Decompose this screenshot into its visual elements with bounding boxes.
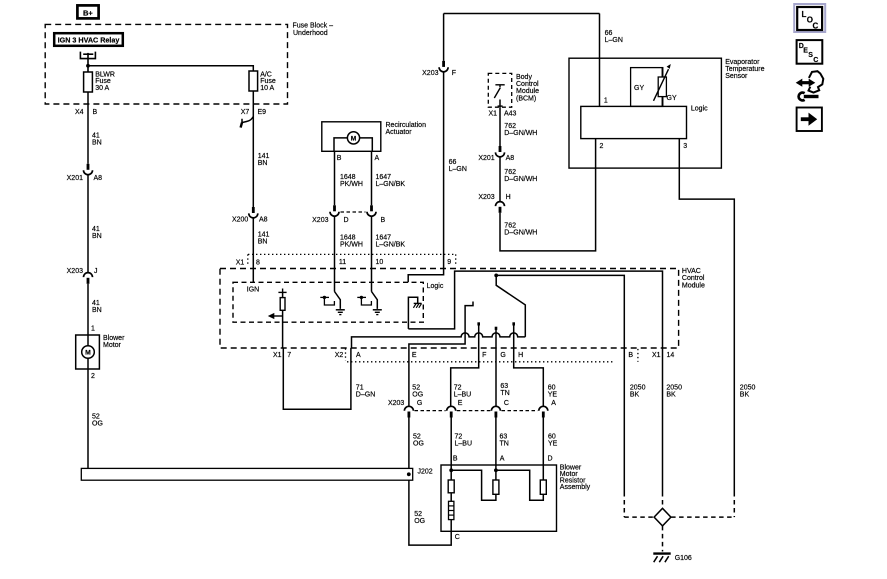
connector X203 pin E (row) xyxy=(447,406,456,411)
wire X200 to HVAC X1-8 (141 BN) xyxy=(252,218,254,282)
battery feed B+ symbol xyxy=(77,5,98,18)
svg-text:Module: Module xyxy=(516,88,539,95)
svg-text:Logic: Logic xyxy=(427,283,444,290)
wire pin E to X203-G (52 OG) xyxy=(408,348,410,406)
wire X201 to X203 (41 BN) xyxy=(87,175,89,273)
svg-text:52: 52 xyxy=(414,511,422,518)
splice J202 xyxy=(81,468,412,480)
wire ground net to X1-14 xyxy=(408,271,662,492)
wire X203-C to resistor A (63 TN) xyxy=(495,418,497,466)
connector X1 bracket right xyxy=(455,254,457,265)
svg-text:1648: 1648 xyxy=(340,235,356,242)
module evaporator temperature sensor box xyxy=(569,58,721,168)
relay contact symbol xyxy=(80,52,95,59)
svg-text:14: 14 xyxy=(667,352,675,359)
HVAC driver arrow xyxy=(273,315,283,317)
svg-text:X200: X200 xyxy=(232,217,248,224)
wire X203-A to resistor D (60 YE) xyxy=(542,418,544,466)
wire top horizontal 66 L-GN xyxy=(444,13,600,15)
svg-text:L: L xyxy=(802,10,807,19)
HVAC driver resistor xyxy=(282,289,284,293)
svg-text:B+: B+ xyxy=(83,8,93,17)
svg-text:1647: 1647 xyxy=(376,174,392,181)
wire X203 D to HVAC pin 11 xyxy=(334,216,336,291)
wire recirc A to X203 (1647 L-GN/BK) xyxy=(371,151,373,205)
svg-text:141: 141 xyxy=(258,232,270,239)
HVAC driver Q2 control hook xyxy=(357,296,366,298)
switch contact E stub xyxy=(409,302,473,349)
connector X1 bracket left xyxy=(247,254,249,265)
connector row X2 dotted line xyxy=(347,361,614,363)
svg-text:IGN: IGN xyxy=(247,287,259,294)
svg-text:52: 52 xyxy=(412,384,420,391)
svg-text:D–GN/WH: D–GN/WH xyxy=(504,176,537,183)
svg-text:9: 9 xyxy=(447,259,451,266)
wire J202 to resistor C (52 OG) xyxy=(409,480,451,545)
junction dot J202 xyxy=(407,472,411,476)
svg-text:2050: 2050 xyxy=(666,384,682,391)
svg-text:L–GN/BK: L–GN/BK xyxy=(376,181,406,188)
svg-text:G: G xyxy=(500,352,505,359)
relay K: IGN 3 HVAC Relay box xyxy=(54,33,123,46)
junction dot relay output xyxy=(86,64,90,68)
svg-text:A: A xyxy=(356,352,361,359)
svg-text:X7: X7 xyxy=(241,109,250,116)
connector X201 pin A8 (BCM) xyxy=(499,146,502,152)
svg-text:D–GN/WH: D–GN/WH xyxy=(504,230,537,237)
svg-text:L–BU: L–BU xyxy=(455,441,473,448)
connector X203 D-B dashed link xyxy=(341,211,366,213)
svg-text:52: 52 xyxy=(92,413,100,420)
junction dot switch feed xyxy=(494,274,498,278)
junction dot resistor B xyxy=(449,468,453,472)
module BCM dashed box xyxy=(488,73,511,107)
recirculation actuator M2 box xyxy=(322,122,381,152)
wire pin B dashed to splice xyxy=(623,492,625,517)
svg-text:2050: 2050 xyxy=(630,384,646,391)
svg-text:BN: BN xyxy=(258,160,268,167)
svg-text:YE: YE xyxy=(548,391,558,398)
dashed ground bus left xyxy=(624,516,654,518)
blower switch hop wire from X2-A xyxy=(352,333,526,348)
inline clip symbol on 141 BN wire xyxy=(242,117,253,123)
connector B bracket xyxy=(637,349,639,362)
svg-text:(BCM): (BCM) xyxy=(516,95,536,102)
svg-text:63: 63 xyxy=(500,383,508,390)
svg-text:E: E xyxy=(458,400,463,407)
svg-text:A8: A8 xyxy=(259,217,268,224)
svg-text:H: H xyxy=(506,194,511,201)
svg-text:7: 7 xyxy=(287,352,291,359)
svg-text:X201: X201 xyxy=(67,175,83,182)
svg-text:L–GN: L–GN xyxy=(605,37,623,44)
svg-text:3: 3 xyxy=(683,143,687,150)
svg-text:52: 52 xyxy=(413,434,421,441)
wire X203 B to HVAC pin 10 xyxy=(371,216,373,291)
wire BCM to X201 (762 D-GN/WH) xyxy=(499,107,501,146)
wire evap-3 dashed to splice xyxy=(733,492,735,517)
svg-text:E: E xyxy=(412,352,417,359)
svg-text:OG: OG xyxy=(412,391,423,398)
svg-text:10: 10 xyxy=(376,259,384,266)
sensor element GY box xyxy=(631,68,663,107)
svg-text:2050: 2050 xyxy=(740,384,756,391)
wire diamond to G106 xyxy=(662,526,664,552)
svg-text:Blower: Blower xyxy=(103,335,125,342)
connector X203 pin B (recirc) xyxy=(370,205,373,211)
HVAC driver Q2 to ground xyxy=(372,292,378,309)
icon schematic navigation (arrows and wrench) xyxy=(796,79,803,87)
svg-text:Control: Control xyxy=(682,275,705,282)
fuse block - underhood box xyxy=(45,24,287,104)
connector X203 pin J xyxy=(84,273,93,278)
svg-text:IGN 3 HVAC Relay: IGN 3 HVAC Relay xyxy=(58,36,120,45)
svg-text:Fuse Block –: Fuse Block – xyxy=(293,23,334,30)
svg-text:11: 11 xyxy=(339,259,346,266)
wire switch feed to pin B xyxy=(496,275,624,492)
svg-text:BN: BN xyxy=(92,139,102,146)
svg-text:L–GN/BK: L–GN/BK xyxy=(376,242,406,249)
junction dot resistor A xyxy=(494,468,498,472)
connector X203 pin D xyxy=(333,205,336,211)
svg-text:A: A xyxy=(500,455,505,462)
svg-text:YE: YE xyxy=(548,441,558,448)
svg-text:BK: BK xyxy=(666,391,676,398)
svg-text:M: M xyxy=(85,350,91,357)
thermistor RT1 xyxy=(658,77,666,97)
wire BLWR fuse to X201 xyxy=(87,92,89,164)
blower switch wiper arm xyxy=(496,275,525,337)
svg-text:762: 762 xyxy=(504,223,516,230)
svg-text:HVAC: HVAC xyxy=(682,268,701,275)
svg-text:X201: X201 xyxy=(478,155,494,162)
switch contact G xyxy=(495,327,498,330)
svg-text:X203: X203 xyxy=(67,268,83,275)
wire top right vertical to evaporator pin 1 xyxy=(599,14,601,107)
connector X203 pin C xyxy=(491,406,500,411)
resistor R3 xyxy=(542,465,544,480)
icon LOC button xyxy=(794,4,825,32)
svg-text:X203: X203 xyxy=(478,194,494,201)
svg-text:G: G xyxy=(417,400,422,407)
svg-text:B: B xyxy=(337,155,342,162)
svg-text:10 A: 10 A xyxy=(260,85,274,92)
svg-text:BN: BN xyxy=(92,307,102,314)
svg-text:Control: Control xyxy=(516,81,539,88)
resistor R2 xyxy=(495,465,497,480)
svg-text:X1: X1 xyxy=(236,260,245,267)
svg-text:A: A xyxy=(551,400,556,407)
svg-text:J202: J202 xyxy=(418,469,433,476)
svg-text:E9: E9 xyxy=(258,109,267,116)
jumper B to R2 bottom xyxy=(451,470,496,500)
HVAC driver Q1 to ground xyxy=(335,292,341,309)
connector X203 pin G xyxy=(404,406,413,411)
svg-text:D: D xyxy=(344,217,349,224)
switch contact F xyxy=(477,322,480,325)
svg-text:GY: GY xyxy=(634,85,644,92)
svg-text:X4: X4 xyxy=(75,109,84,116)
ground G106 symbol xyxy=(653,552,670,554)
svg-text:X203: X203 xyxy=(422,70,438,77)
svg-text:63: 63 xyxy=(500,434,508,441)
svg-text:J: J xyxy=(94,268,98,275)
connector X2 bracket xyxy=(345,348,347,360)
svg-text:A: A xyxy=(375,155,380,162)
svg-text:72: 72 xyxy=(455,434,463,441)
svg-text:A8: A8 xyxy=(506,155,515,162)
wire A/C fuse to X200 (141 BN) xyxy=(252,91,254,207)
svg-text:X203: X203 xyxy=(388,400,404,407)
svg-text:F: F xyxy=(482,352,486,359)
svg-text:2: 2 xyxy=(600,143,604,150)
svg-text:Evaporator: Evaporator xyxy=(725,59,760,66)
svg-text:PK/WH: PK/WH xyxy=(340,242,363,249)
svg-text:Body: Body xyxy=(516,74,532,81)
svg-text:30 A: 30 A xyxy=(95,85,109,92)
BCM internal switch xyxy=(495,84,504,86)
svg-text:OG: OG xyxy=(92,420,103,427)
HVAC logic chassis ground xyxy=(408,297,417,329)
svg-text:X1: X1 xyxy=(488,111,497,118)
thermal limiter ladder xyxy=(450,493,452,502)
svg-text:B: B xyxy=(381,217,386,224)
connector X201 pin A8 xyxy=(87,164,90,170)
svg-text:141: 141 xyxy=(258,153,270,160)
svg-text:Actuator: Actuator xyxy=(386,129,413,136)
svg-text:72: 72 xyxy=(454,384,462,391)
evaporator logic box xyxy=(581,106,687,138)
svg-text:L–GN: L–GN xyxy=(449,166,467,173)
wire X1-7 to X2-A (71 D-GN) xyxy=(283,348,351,409)
connector row X1 dotted line xyxy=(248,253,456,255)
svg-text:BN: BN xyxy=(92,233,102,240)
svg-text:A8: A8 xyxy=(94,175,103,182)
svg-text:TN: TN xyxy=(500,390,509,397)
module HVAC control module dashed box xyxy=(220,269,679,349)
svg-text:X203: X203 xyxy=(312,217,328,224)
svg-text:2: 2 xyxy=(91,373,95,380)
icon DESC button xyxy=(797,40,823,64)
switch contact H xyxy=(512,322,515,325)
svg-text:Assembly: Assembly xyxy=(560,484,591,491)
svg-text:60: 60 xyxy=(548,384,556,391)
jumper A to R3 bottom xyxy=(496,470,543,500)
resistor R1 xyxy=(450,465,452,480)
splice diamond xyxy=(654,508,671,526)
HVAC logic dashed box xyxy=(233,282,423,322)
wire recirc B to X203 (1648 PK/WH) xyxy=(334,151,336,205)
svg-text:C: C xyxy=(455,534,460,541)
svg-text:1647: 1647 xyxy=(376,235,392,242)
svg-text:762: 762 xyxy=(504,169,516,176)
connector X203 pin F xyxy=(442,61,445,67)
wire blower motor to J202 (52 OG) xyxy=(87,369,89,468)
svg-text:OG: OG xyxy=(413,441,424,448)
svg-text:1: 1 xyxy=(91,325,95,332)
svg-text:BK: BK xyxy=(740,391,750,398)
svg-text:X2: X2 xyxy=(335,352,344,359)
wire X203-E to resistor B (72 L-BU) xyxy=(450,418,452,466)
svg-text:66: 66 xyxy=(605,30,613,37)
svg-text:66: 66 xyxy=(449,159,457,166)
svg-text:L–BU: L–BU xyxy=(454,391,472,398)
svg-text:TN: TN xyxy=(500,441,509,448)
svg-text:Module: Module xyxy=(682,282,705,289)
wire X203 H to evaporator pin 2 (762) xyxy=(500,139,596,251)
wire X203 F to HVAC pin 9 (66 L-GN) xyxy=(408,72,443,282)
svg-text:Motor: Motor xyxy=(103,342,122,349)
svg-text:Logic: Logic xyxy=(691,106,708,113)
icon next arrow button xyxy=(797,108,822,132)
svg-text:C: C xyxy=(813,57,818,64)
connector X200 pin A8 xyxy=(252,207,255,213)
wire X203-G to J202 (52 OG) xyxy=(408,418,410,469)
fuse F1 BLWR 30A xyxy=(84,72,93,92)
svg-text:Underhood: Underhood xyxy=(293,30,328,37)
wire top left vertical to X203 F xyxy=(443,14,445,61)
svg-text:Temperature: Temperature xyxy=(725,66,764,73)
svg-text:D: D xyxy=(548,455,553,462)
wire evaporator pin 3 to ground net xyxy=(679,139,734,492)
svg-text:1: 1 xyxy=(604,97,608,104)
connector X203 row dashed links xyxy=(415,410,446,412)
svg-text:GY: GY xyxy=(667,95,677,102)
wire relay output to A/C fuse xyxy=(88,66,253,71)
HVAC driver Q1 control hook xyxy=(320,296,329,298)
svg-text:H: H xyxy=(518,352,523,359)
svg-text:41: 41 xyxy=(92,226,100,233)
svg-text:A43: A43 xyxy=(504,111,517,118)
dashed ground bus right xyxy=(671,516,734,518)
connector X203 pin A (row) xyxy=(539,406,548,411)
svg-text:B: B xyxy=(628,352,633,359)
svg-text:X1: X1 xyxy=(652,352,661,359)
wire X203 to blower motor (41 BN) xyxy=(87,284,89,335)
svg-text:8: 8 xyxy=(256,260,260,267)
connector X203 pin H (BCM) xyxy=(496,202,505,207)
svg-text:C: C xyxy=(504,400,509,407)
svg-text:Sensor: Sensor xyxy=(725,73,748,80)
svg-text:OG: OG xyxy=(414,518,425,525)
svg-text:X1: X1 xyxy=(273,352,282,359)
svg-text:41: 41 xyxy=(92,132,100,139)
module blower motor resistor assembly box xyxy=(441,465,557,531)
svg-text:B: B xyxy=(93,109,98,116)
svg-text:762: 762 xyxy=(504,123,516,130)
svg-text:BK: BK xyxy=(630,391,640,398)
svg-text:M: M xyxy=(351,136,357,143)
svg-text:Recirculation: Recirculation xyxy=(386,122,427,129)
svg-text:B: B xyxy=(453,455,458,462)
svg-text:D–GN: D–GN xyxy=(356,391,375,398)
svg-text:C: C xyxy=(813,21,819,30)
svg-text:41: 41 xyxy=(92,300,100,307)
svg-text:BN: BN xyxy=(258,239,268,246)
svg-text:D–GN/WH: D–GN/WH xyxy=(504,130,537,137)
svg-text:G106: G106 xyxy=(675,555,692,562)
svg-text:F: F xyxy=(452,70,456,77)
wire X1-14 dashed to splice xyxy=(662,492,664,508)
svg-text:1648: 1648 xyxy=(340,174,356,181)
blower motor M1 box xyxy=(76,335,100,369)
wire X201 to X203 (762) xyxy=(499,157,501,202)
fuse F2 A/C 10A xyxy=(249,71,258,91)
svg-text:71: 71 xyxy=(356,384,364,391)
svg-text:PK/WH: PK/WH xyxy=(340,181,363,188)
svg-text:60: 60 xyxy=(548,434,556,441)
